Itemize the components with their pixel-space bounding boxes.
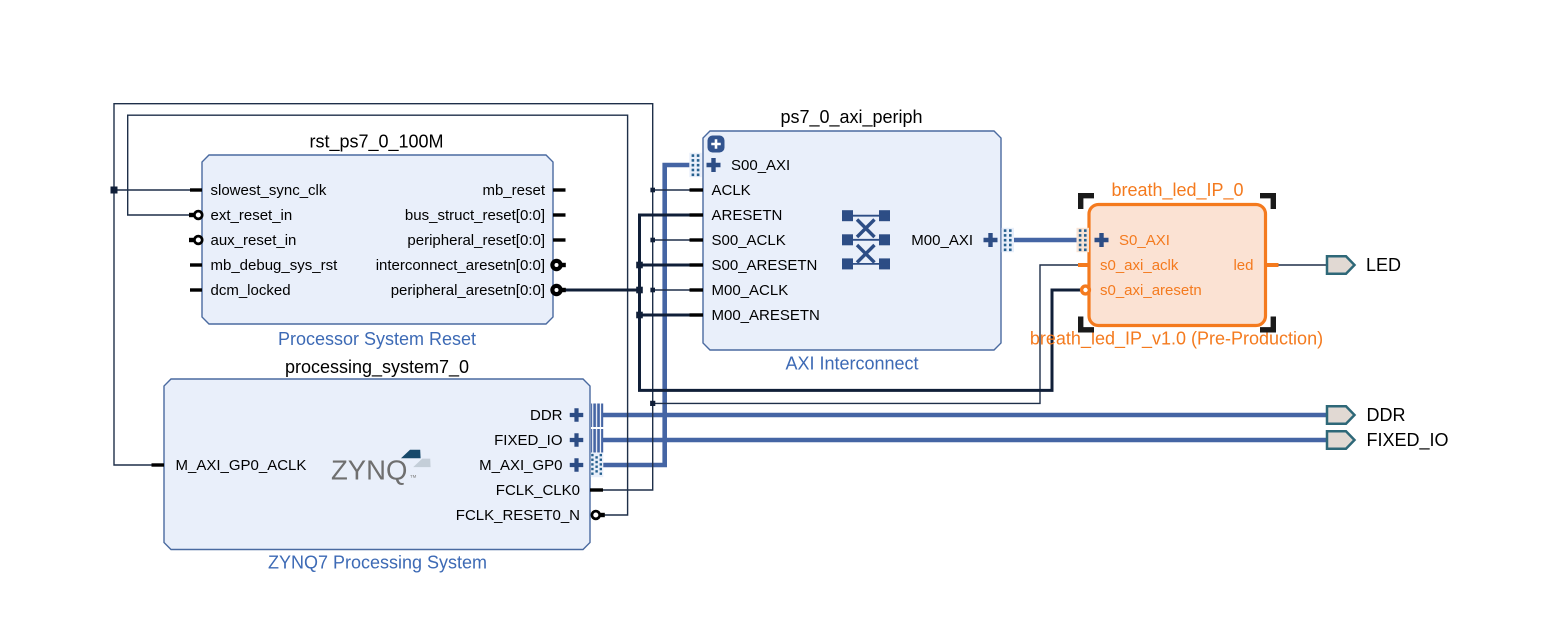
svg-text:ext_reset_in: ext_reset_in <box>211 207 293 224</box>
svg-text:led: led <box>1233 257 1253 274</box>
svg-text:peripheral_aresetn[0:0]: peripheral_aresetn[0:0] <box>391 282 545 299</box>
svg-text:bus_struct_reset[0:0]: bus_struct_reset[0:0] <box>405 207 545 224</box>
svg-text:FIXED_IO: FIXED_IO <box>494 432 562 449</box>
svg-text:interconnect_aresetn[0:0]: interconnect_aresetn[0:0] <box>376 257 545 274</box>
svg-text:DDR: DDR <box>530 407 563 424</box>
svg-text:S00_ARESETN: S00_ARESETN <box>712 257 818 274</box>
svg-text:mb_debug_sys_rst: mb_debug_sys_rst <box>211 257 339 274</box>
svg-text:FCLK_RESET0_N: FCLK_RESET0_N <box>456 507 580 524</box>
svg-text:breath_led_IP_v1.0 (Pre-Produc: breath_led_IP_v1.0 (Pre-Production) <box>1030 328 1323 349</box>
svg-text:aux_reset_in: aux_reset_in <box>211 232 297 249</box>
svg-text:ps7_0_axi_periph: ps7_0_axi_periph <box>780 107 922 128</box>
svg-text:S00_ACLK: S00_ACLK <box>712 232 786 249</box>
svg-text:mb_reset: mb_reset <box>482 182 545 199</box>
svg-text:s0_axi_aresetn: s0_axi_aresetn <box>1100 282 1202 299</box>
svg-text:M_AXI_GP0_ACLK: M_AXI_GP0_ACLK <box>176 457 307 474</box>
svg-text:ACLK: ACLK <box>712 182 751 199</box>
svg-text:peripheral_reset[0:0]: peripheral_reset[0:0] <box>407 232 545 249</box>
svg-text:DDR: DDR <box>1367 405 1406 425</box>
svg-text:S0_AXI: S0_AXI <box>1119 232 1170 249</box>
svg-text:breath_led_IP_0: breath_led_IP_0 <box>1111 180 1243 201</box>
svg-text:LED: LED <box>1366 255 1401 275</box>
svg-text:M_AXI_GP0: M_AXI_GP0 <box>479 457 562 474</box>
svg-text:Processor System Reset: Processor System Reset <box>278 329 476 349</box>
svg-text:FCLK_CLK0: FCLK_CLK0 <box>496 482 580 499</box>
svg-text:rst_ps7_0_100M: rst_ps7_0_100M <box>309 131 443 152</box>
svg-text:™: ™ <box>410 473 418 482</box>
svg-text:ARESETN: ARESETN <box>712 207 783 224</box>
svg-text:ZYNQ7 Processing System: ZYNQ7 Processing System <box>268 552 487 572</box>
svg-text:ZYNQ: ZYNQ <box>331 454 407 485</box>
svg-text:dcm_locked: dcm_locked <box>211 282 291 299</box>
svg-text:slowest_sync_clk: slowest_sync_clk <box>211 182 327 199</box>
svg-text:M00_ARESETN: M00_ARESETN <box>712 307 820 324</box>
svg-text:M00_AXI: M00_AXI <box>911 232 973 249</box>
svg-text:S00_AXI: S00_AXI <box>731 157 790 174</box>
svg-text:M00_ACLK: M00_ACLK <box>712 282 789 299</box>
svg-text:s0_axi_aclk: s0_axi_aclk <box>1100 257 1179 274</box>
svg-text:AXI Interconnect: AXI Interconnect <box>785 353 918 373</box>
svg-text:FIXED_IO: FIXED_IO <box>1367 430 1449 451</box>
svg-text:processing_system7_0: processing_system7_0 <box>285 357 469 378</box>
